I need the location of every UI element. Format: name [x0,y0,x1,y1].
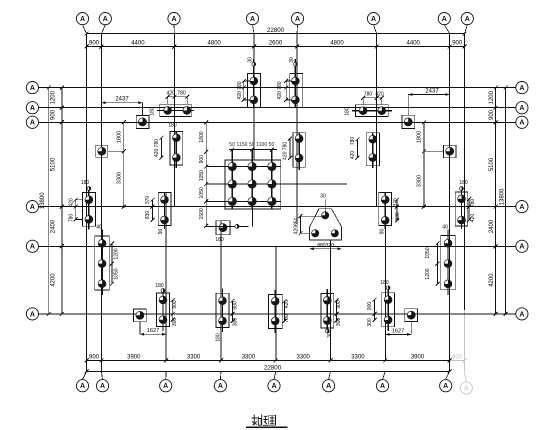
svg-text:5100: 5100 [51,157,57,171]
wire: horizontal grid axis rows A-F [38,87,516,89]
svg-text:4800: 4800 [208,41,222,47]
svg-text:900: 900 [452,41,463,47]
svg-text:780: 780 [284,314,290,323]
node axis bubble bottom at grid x=86.5 [83,371,87,379]
pile cap F3 two piles row F x=275.2 [269,294,283,328]
svg-text:A: A [519,311,524,318]
svg-text:420 780: 420 780 [154,139,160,157]
svg-text:A: A [271,383,276,390]
node axis bubble left row y=122.3 [26,116,38,128]
wire: vertical grid axis lines [86,34,88,372]
svg-text:22800: 22800 [264,365,282,372]
pile cap S1 single pile row F x=139.9 [134,309,147,322]
svg-text:A: A [30,204,35,211]
svg-text:180: 180 [345,107,351,116]
svg-text:420: 420 [470,214,476,223]
svg-text:900: 900 [489,109,495,120]
pile cap S3 single pile x=223 y=227.2 [216,221,230,235]
node axis bubble top at grid x=449.7 [444,25,449,34]
svg-text:300: 300 [336,318,342,327]
dimension 2437 top-left [101,102,142,104]
svg-text:180: 180 [215,237,224,243]
svg-text:A: A [519,120,524,127]
svg-text:420: 420 [350,151,356,160]
svg-text:780: 780 [364,92,373,98]
svg-text:30: 30 [248,57,254,63]
pile cap V4 two piles x=299.1 [293,133,305,167]
node axis bubble right row y=313.9 [516,308,528,320]
heavy pile axis lines of big cap [231,150,233,210]
svg-text:2600: 2600 [269,41,283,47]
title (drawn glyph strokes) underlined [252,415,276,426]
svg-text:1050: 1050 [114,268,120,279]
node axis bubble bottom at grid x=275.8 [274,371,276,379]
svg-text:A: A [371,16,376,23]
svg-text:2400: 2400 [51,219,57,233]
dimension: top segments 900/4400/4800/2600/4800/4400/900 [87,46,465,48]
svg-text:830: 830 [395,212,401,221]
pile cap D1 two piles at axis x=86.5 row D [82,193,95,227]
svg-text:1200: 1200 [489,90,495,104]
svg-text:420851: 420851 [293,217,299,234]
svg-text:1800: 1800 [417,131,423,143]
pile cap E2 three piles x=448 [441,236,455,290]
svg-text:13800: 13800 [500,188,506,205]
svg-text:4400: 4400 [131,41,145,47]
svg-text:180: 180 [150,107,156,116]
node axis bubble left row y=246.3 [26,240,38,252]
dimension: right segments 1200/900/5100/2400/4200 [495,88,497,314]
svg-text:900: 900 [51,109,57,120]
svg-text:180: 180 [459,180,468,186]
node axis bubble top at grid x=376.7 [374,25,377,34]
node axis bubble bottom at grid x=449.7 [446,371,450,379]
dimension 1627 bottom-right [385,333,411,335]
svg-text:A: A [30,105,35,112]
svg-text:830: 830 [145,211,151,220]
svg-text:420 780: 420 780 [283,142,289,160]
svg-text:370: 370 [393,198,399,207]
pile cap F4 two piles row F x=327.3 [321,293,334,328]
svg-text:1627: 1627 [147,328,159,334]
pile cap T3 single pile x=101.4 y=151.2 [96,145,108,157]
pile cap U1 big nine-pile cap [225,160,281,209]
svg-text:A: A [519,204,524,211]
pile cap E1 three piles x=102.1 [95,236,109,290]
svg-text:A: A [464,385,469,392]
svg-text:A: A [326,383,331,390]
node axis bubble top at grid x=101.4 [101,25,105,34]
pile cap D3 two piles x=385.2 row D [379,193,392,226]
node axis bubble top at grid x=254.0 [253,25,255,34]
svg-text:A: A [442,16,447,23]
pile cap F2 two piles row F x=222.5 [216,293,229,327]
svg-text:300: 300 [172,318,178,327]
svg-text:2400: 2400 [489,219,495,233]
svg-text:A: A [443,383,448,390]
svg-text:900: 900 [199,155,205,164]
svg-text:13800: 13800 [40,192,46,209]
node axis bubble bottom at grid x=101.4 [101,371,102,379]
svg-text:1200: 1200 [425,268,431,279]
svg-text:780: 780 [470,199,476,208]
pile cap F5 two piles row F x=388.1 [382,293,395,327]
svg-text:1800: 1800 [199,131,205,142]
svg-text:1500: 1500 [199,208,205,219]
svg-text:40: 40 [442,225,448,231]
wire: bottom-set vertical grid lines [165,192,167,360]
node axis bubble left row y=206.6 [26,201,38,213]
svg-text:A: A [465,16,470,23]
svg-text:420 780: 420 780 [237,81,243,99]
node axis bubble right row y=206.6 [516,201,528,213]
svg-text:900: 900 [233,301,239,310]
svg-text:40: 40 [96,225,102,231]
svg-text:3300: 3300 [116,172,122,184]
pile cap T2 single pile row C x=408.2 [402,115,415,128]
svg-text:50 1150 50 1100 50: 50 1150 50 1100 50 [229,142,274,148]
svg-text:3300: 3300 [417,175,423,187]
svg-text:3300: 3300 [297,354,311,360]
dimension chain 900/1050/1050/1500 left of big cap [205,122,207,226]
node axis bubble right row y=107.7 [516,102,528,114]
svg-text:A: A [519,105,524,112]
svg-text:180: 180 [81,180,90,186]
svg-text:300: 300 [367,318,373,327]
svg-text:A: A [250,16,255,23]
dimension 2437 top-right [408,94,450,96]
svg-text:900: 900 [452,354,463,360]
svg-text:2437: 2437 [115,97,129,103]
svg-text:420 780: 420 780 [277,81,283,99]
svg-text:420: 420 [167,91,176,97]
svg-text:1050: 1050 [199,170,205,181]
dimension: left segments 1200/900/5100/2400/4200 [61,88,63,314]
node axis bubble left row y=107.7 [26,102,38,114]
dimension 1800 / 3300 chain right [423,122,425,206]
svg-text:900: 900 [89,41,100,47]
svg-text:3300: 3300 [187,354,201,360]
svg-text:180: 180 [155,283,164,289]
dimension: left overall 13800 [48,88,50,314]
svg-text:1050: 1050 [199,187,205,198]
dimension: bottom segments 900/3900/3300x4/3900/900 [87,359,450,361]
svg-text:A: A [295,16,300,23]
svg-text:4800: 4800 [330,41,344,47]
svg-text:30: 30 [289,57,295,63]
node axis bubble top at grid x=86.5 [83,25,87,34]
node axis bubble left row y=87.6 [26,82,38,94]
dimension: top overall 22800 [87,33,465,35]
svg-text:22800: 22800 [267,27,285,34]
svg-text:370: 370 [145,196,151,205]
svg-text:900: 900 [89,354,100,360]
pile cap H1 two piles on row B left [160,104,191,116]
svg-text:900: 900 [172,300,178,309]
svg-text:4400: 4400 [407,41,421,47]
svg-text:420: 420 [284,300,290,309]
svg-text:30: 30 [327,332,333,338]
svg-text:A: A [519,244,524,251]
node axis bubble top at grid x=464.6 [465,25,468,34]
pile cap F1 two piles row F x=163 [157,293,170,327]
node axis bubble bottom ghost [464,371,466,381]
svg-text:2437: 2437 [425,88,439,94]
node axis bubble right row y=246.3 [516,240,528,252]
pile cap H2 two piles on row B right [356,105,389,117]
svg-text:1627: 1627 [392,328,404,334]
svg-text:780: 780 [177,91,186,97]
pile cap V3 two piles x=176.3 [170,132,183,166]
svg-text:A: A [30,311,35,318]
svg-text:420: 420 [375,92,384,98]
svg-text:4200: 4200 [489,273,495,287]
pile cap V1 two piles on axis x=254 top [247,73,260,107]
svg-text:900: 900 [336,300,342,309]
pile cap D4 two piles x=461.5 row D [455,192,468,226]
svg-text:1050: 1050 [425,247,431,258]
svg-text:90: 90 [380,229,386,235]
dimension 1627 bottom-left [140,333,166,335]
svg-text:900: 900 [367,302,373,311]
svg-text:A: A [30,120,35,127]
svg-text:180: 180 [216,333,222,342]
svg-text:180: 180 [380,280,389,286]
node axis bubble top at grid x=297.0 [296,25,299,34]
svg-text:880320: 880320 [317,243,334,249]
svg-text:A: A [103,16,108,23]
svg-text:780: 780 [68,214,74,223]
svg-text:A: A [519,85,524,92]
svg-text:A: A [163,383,168,390]
dimension 1800 / 3300 chain left [123,122,125,206]
svg-text:A: A [80,16,85,23]
node axis bubble right row y=122.3 [516,116,528,128]
node axis bubble bottom at grid x=385.3 [383,371,386,379]
svg-text:A: A [218,383,223,390]
pile cap S2 single pile row F x=411.2 [405,309,418,322]
svg-text:90: 90 [158,229,164,235]
svg-text:420: 420 [68,198,74,207]
svg-text:780: 780 [350,137,356,146]
svg-text:1800: 1800 [116,131,122,143]
node axis bubble bottom at grid x=221.0 [219,371,222,379]
svg-text:4200: 4200 [51,273,57,287]
svg-text:1200: 1200 [114,248,120,259]
pile cap TR1 triangular three-pile cap [310,209,342,240]
svg-text:A: A [380,383,385,390]
svg-text:3900: 3900 [127,354,141,360]
node axis bubble top at grid x=174.4 [173,25,175,34]
dimension 50 1150 50 1100 50 above big cap [229,149,277,151]
svg-text:180: 180 [168,123,177,129]
dimension: right overall 13800 [505,88,507,314]
svg-text:5100: 5100 [489,157,495,171]
svg-text:3300: 3300 [351,354,365,360]
pile cap T4 single pile x=449.7 y=151.2 [444,145,456,157]
pile cap T1 single pile row C x=142.5 [136,115,149,128]
pile cap D2 two piles x=164.5 row D [158,193,171,226]
svg-text:A: A [80,383,85,390]
node axis bubble left row y=313.9 [26,308,38,320]
node axis bubble bottom at grid x=330.5 [329,371,331,379]
svg-text:3300: 3300 [242,354,256,360]
svg-text:A: A [100,383,105,390]
dimension: bottom overall 22800 [87,370,450,372]
svg-text:3900: 3900 [411,354,425,360]
svg-text:A: A [30,244,35,251]
svg-text:A: A [171,16,176,23]
svg-text:30: 30 [320,194,326,200]
pile cap V2 two piles on axis x=297 top [290,73,303,107]
svg-text:300: 300 [233,318,239,327]
node axis bubble right row y=87.6 [516,82,528,94]
svg-text:A: A [30,85,35,92]
svg-text:1200: 1200 [51,90,57,104]
pile cap V5 two piles x=372.8 [366,133,379,166]
node axis bubble bottom at grid x=166.2 [165,371,168,379]
